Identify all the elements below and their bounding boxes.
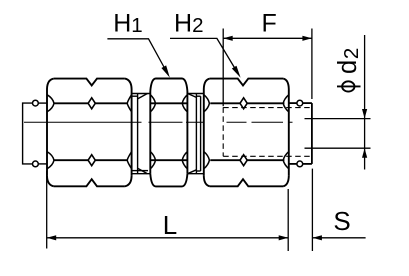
F arrow left [223, 36, 233, 41]
hidden port inside right nut (dashed) [223, 107, 311, 156]
port circle bottom [297, 161, 303, 167]
center line [24, 121, 293, 123]
middle hex spikes left edge [150, 95, 155, 112]
L arrow right [279, 235, 289, 240]
svg-text:d: d [334, 60, 362, 74]
S dimension line [312, 237, 365, 239]
phi d2 arrow up [362, 148, 367, 158]
left nut facet diamond bottom [88, 155, 95, 166]
gasket circle bottom-left [33, 161, 39, 167]
left nut outline [47, 79, 132, 187]
L extension lines [47, 171, 289, 251]
left nut facet line top [54, 102, 127, 104]
F dimension line [223, 37, 312, 39]
phi d2 arrow down [362, 109, 367, 119]
L arrow left [47, 235, 57, 240]
right port [289, 103, 312, 164]
left nut corner spikes right edge [127, 95, 131, 112]
right nut facet line top [210, 102, 284, 104]
H2 arrowhead [232, 66, 241, 78]
F extension lines [223, 29, 312, 107]
right nut facet diamond bottom [240, 155, 247, 166]
right nut facet line bottom [210, 159, 284, 161]
left nut facet line bottom [54, 159, 127, 161]
phi symbol [342, 81, 354, 91]
port circle top [297, 100, 303, 106]
svg-text:L: L [163, 210, 177, 240]
thread neck 1 [132, 94, 150, 174]
right nut facet diamond top [240, 98, 247, 109]
bore extension lines for d2 [305, 119, 371, 149]
H2 leader line [170, 38, 236, 70]
thread neck 2 [188, 94, 204, 174]
left end bracket [23, 103, 47, 164]
phi d2 dimension line [364, 35, 366, 170]
middle hex body [150, 79, 187, 187]
H1 leader line [107, 39, 165, 70]
right nut spikes right edge [283, 95, 289, 112]
S extension line [311, 169, 313, 251]
svg-text:S: S [333, 206, 350, 236]
svg-text:H1: H1 [113, 9, 142, 37]
svg-text:H2: H2 [174, 9, 203, 37]
left nut facet diamond top [88, 98, 95, 109]
middle hex spikes right edge [182, 95, 187, 112]
left nut corner spikes left edge [47, 95, 54, 112]
right nut spikes left edge [204, 95, 210, 112]
right nut outline [204, 79, 289, 187]
F arrow right [302, 36, 312, 41]
gasket circle top-left [33, 100, 39, 106]
L dimension line [47, 237, 289, 239]
S arrowhead [312, 235, 322, 240]
H1 arrowhead [161, 65, 169, 77]
svg-text:2: 2 [340, 48, 363, 59]
svg-text:F: F [262, 10, 277, 38]
